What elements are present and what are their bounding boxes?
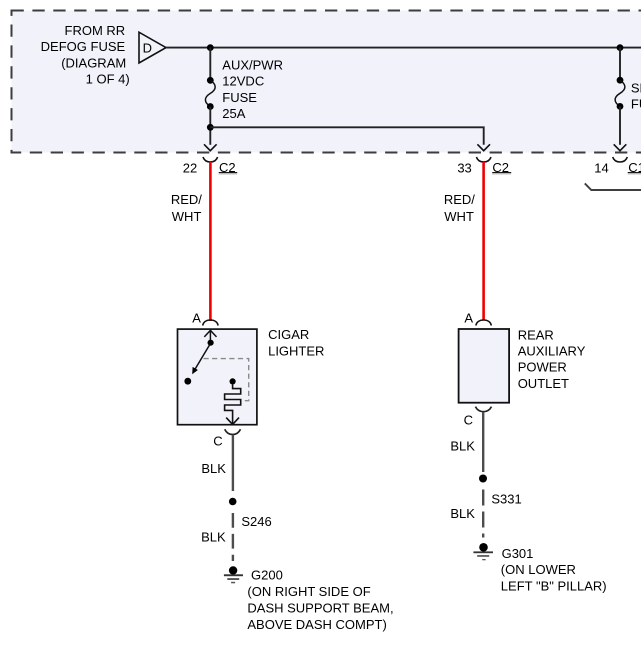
arrow into connector 22 — [204, 144, 217, 150]
svg-text:D: D — [143, 40, 152, 55]
cigar lighter dashed control link — [204, 359, 249, 401]
svg-text:FROM RR: FROM RR — [65, 23, 126, 38]
wire to off-page right (below 14 C1) — [585, 183, 641, 190]
junction node at fuse AUX/PWR — [207, 44, 214, 51]
wire BLK left solid — [232, 435, 234, 491]
node FROM RR DEFOG FUSE label — [41, 23, 130, 87]
svg-text:14: 14 — [594, 161, 608, 176]
svg-text:33: 33 — [457, 161, 471, 176]
svg-text:DEFOG FUSE: DEFOG FUSE — [41, 39, 126, 54]
connector 22 C2 — [183, 157, 237, 176]
label RED/WHT left — [171, 192, 202, 224]
svg-text:(DIAGRAM: (DIAGRAM — [61, 55, 126, 70]
label REAR AUXILIARY POWER OUTLET — [518, 327, 586, 391]
svg-text:(ON RIGHT SIDE OF: (ON RIGHT SIDE OF — [247, 584, 370, 599]
pin C rear outlet — [464, 407, 492, 428]
svg-text:BLK: BLK — [201, 530, 226, 545]
cigar lighter internal contact arrow — [204, 330, 216, 346]
svg-text:FUSE: FUSE — [631, 97, 641, 112]
wire: fuse output down — [209, 107, 211, 145]
svg-text:C: C — [464, 413, 473, 428]
wire RED/WHT right — [482, 162, 485, 321]
pin A rear outlet — [464, 310, 491, 325]
wire: right fuse output down — [619, 106, 621, 144]
wire BLK right dashed — [482, 490, 484, 538]
label G200 — [247, 568, 393, 632]
svg-text:BLK: BLK — [450, 439, 475, 454]
svg-text:RED/: RED/ — [444, 192, 475, 207]
wire: main feed bus — [166, 47, 641, 49]
pin C cigar lighter — [213, 429, 240, 449]
svg-text:CIGAR: CIGAR — [268, 327, 309, 342]
svg-text:REAR: REAR — [518, 327, 554, 342]
svg-text:C: C — [213, 434, 222, 449]
wire: drop to AUX/PWR fuse — [209, 48, 211, 80]
power distribution cell (dashed box) — [12, 11, 641, 153]
svg-text:25A: 25A — [222, 106, 245, 121]
label RED/WHT right — [444, 192, 475, 224]
fuse right (clipped) — [615, 77, 625, 110]
svg-text:G301: G301 — [502, 546, 534, 561]
wire BLK right solid — [482, 412, 484, 472]
label CIGAR LIGHTER — [268, 327, 324, 358]
svg-text:22: 22 — [183, 161, 197, 176]
svg-text:WHT: WHT — [172, 209, 202, 224]
buffer triangle D (off-page source) — [139, 32, 166, 63]
svg-text:AUX/PWR: AUX/PWR — [222, 57, 283, 72]
svg-text:RED/: RED/ — [171, 192, 202, 207]
wire BLK left dashed — [232, 513, 234, 561]
svg-text:BLK: BLK — [450, 506, 475, 521]
label G301 — [501, 546, 607, 594]
junction node branch to 33 C2 — [207, 124, 214, 131]
wire: branch to connector 33 — [210, 127, 483, 145]
rear auxiliary power outlet box — [459, 329, 510, 403]
label fuse AUX/PWR — [222, 57, 283, 121]
label right fuse (clipped) — [631, 80, 641, 111]
junction node at right fuse — [617, 44, 624, 51]
svg-text:SEATS: SEATS — [631, 80, 641, 95]
svg-text:G200: G200 — [251, 568, 283, 583]
splice S246 — [229, 498, 272, 529]
svg-text:OUTLET: OUTLET — [518, 376, 569, 391]
svg-text:A: A — [464, 310, 473, 325]
svg-text:1 OF 4): 1 OF 4) — [86, 72, 130, 87]
svg-text:(ON LOWER: (ON LOWER — [501, 562, 576, 577]
svg-text:ABOVE DASH COMPT): ABOVE DASH COMPT) — [247, 617, 386, 632]
svg-text:POWER: POWER — [518, 360, 567, 375]
svg-text:WHT: WHT — [444, 209, 474, 224]
wire: right fuse drop — [619, 48, 621, 80]
arrow into connector 33 — [477, 144, 490, 150]
wire RED/WHT left — [209, 162, 212, 321]
connector 33 C2 — [457, 157, 511, 176]
svg-text:FUSE: FUSE — [222, 90, 257, 105]
svg-text:BLK: BLK — [201, 461, 226, 476]
cigar lighter switch arm — [184, 345, 209, 385]
splice S331 — [479, 475, 522, 507]
ground G301 — [473, 543, 493, 560]
svg-text:LEFT "B" PILLAR): LEFT "B" PILLAR) — [501, 578, 607, 593]
cigar lighter C101 box — [178, 329, 257, 425]
fuse AUX/PWR 12VDC 25A — [205, 77, 215, 110]
svg-text:DASH SUPPORT BEAM,: DASH SUPPORT BEAM, — [247, 601, 393, 616]
svg-text:A: A — [192, 310, 201, 325]
connector 14 C1 — [594, 157, 641, 176]
svg-text:12VDC: 12VDC — [222, 74, 264, 89]
svg-text:S246: S246 — [241, 514, 271, 529]
ground G200 — [224, 566, 243, 583]
pin A cigar lighter — [192, 310, 218, 325]
svg-text:S331: S331 — [491, 492, 521, 507]
cigar lighter heating element — [225, 378, 241, 424]
svg-text:AUXILIARY: AUXILIARY — [518, 344, 586, 359]
svg-text:LIGHTER: LIGHTER — [268, 343, 324, 358]
arrow into connector 14 — [614, 144, 627, 150]
